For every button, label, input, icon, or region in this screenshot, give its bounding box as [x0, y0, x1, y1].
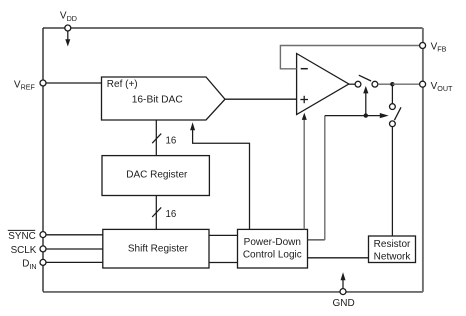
control wire Power-Down to op-amp with arrow: [303, 120, 305, 230]
bus slash 1: [152, 134, 161, 144]
svg-text:16: 16: [166, 209, 177, 220]
bus slash 2: [152, 207, 161, 217]
GND arrow: [341, 272, 346, 288]
pin VDD: [65, 25, 71, 31]
svg-text:Shift Register: Shift Register: [128, 244, 189, 255]
control branch up arrow to output switch: [365, 93, 367, 116]
pin VREF: [40, 80, 46, 86]
op-amp A1: [297, 54, 349, 115]
svg-text:DAC Register: DAC Register: [126, 170, 188, 181]
Resistor Network block: [369, 236, 416, 263]
junction node output: [390, 82, 394, 86]
feedback wire VFB to op-amp inverting input: [280, 46, 419, 69]
pin VFB: [420, 43, 426, 49]
junction node control: [364, 113, 368, 117]
control wire Power-Down to switches: [308, 239, 325, 241]
wire DIN to Shift Register: [46, 261, 103, 263]
output switch contact left: [355, 81, 361, 87]
output switch blade: [359, 75, 371, 81]
control wire Power-Down to DAC with arrow: [193, 130, 250, 229]
svg-text:16: 16: [166, 135, 177, 146]
wire op-amp output to switch: [349, 83, 355, 85]
svg-text:Resistor: Resistor: [374, 239, 411, 250]
bus DAC to DAC Register: [155, 120, 157, 156]
wire output node down to shutdown switch: [391, 86, 393, 104]
op-amp plus sign: [300, 96, 308, 103]
Shift Register block: [103, 229, 209, 268]
svg-text:Power-Down: Power-Down: [244, 237, 301, 248]
shutdown switch blade: [394, 107, 401, 120]
arrow to output switch (right): [380, 113, 389, 118]
pin VOUT: [420, 81, 426, 87]
svg-text:Control Logic: Control Logic: [243, 249, 302, 260]
wire VREF to DAC: [46, 82, 102, 84]
16-Bit DAC block U1: [102, 77, 226, 120]
wire node to VOUT: [392, 83, 419, 85]
svg-text:16-Bit DAC: 16-Bit DAC: [132, 95, 183, 106]
svg-text:SYNC: SYNC: [8, 231, 35, 242]
wire Shift Register to Power-Down lower: [209, 262, 238, 264]
wire SCLK to Shift Register: [46, 248, 103, 250]
op-amp minus sign: [301, 68, 308, 70]
Power-Down Control Logic block: [238, 229, 308, 268]
wire DAC output to op-amp: [225, 98, 297, 100]
outer chip border: [43, 28, 423, 292]
pin SYNC: [40, 232, 46, 238]
wire Power-Down to Resistor Network: [308, 257, 369, 259]
svg-text:Network: Network: [374, 251, 412, 262]
wire Shift Register to Power-Down upper: [209, 234, 238, 236]
wire shutdown switch to Resistor Network: [391, 127, 393, 236]
svg-text:Ref (+): Ref (+): [107, 79, 138, 90]
DAC Register block: [102, 156, 209, 196]
svg-text:GND: GND: [332, 298, 354, 309]
shutdown switch contact top: [390, 104, 396, 110]
VDD input arrow: [65, 31, 70, 46]
svg-text:SCLK: SCLK: [11, 245, 37, 256]
pin DIN: [40, 259, 46, 265]
shutdown switch contact bottom: [390, 121, 396, 127]
bus DAC Register to Shift Register: [155, 196, 157, 230]
wire SYNC to Shift Register: [46, 234, 103, 236]
output switch contact right: [372, 81, 378, 87]
wire switch to output node: [378, 83, 393, 85]
pin SCLK: [40, 246, 46, 252]
pin GND: [340, 289, 346, 295]
